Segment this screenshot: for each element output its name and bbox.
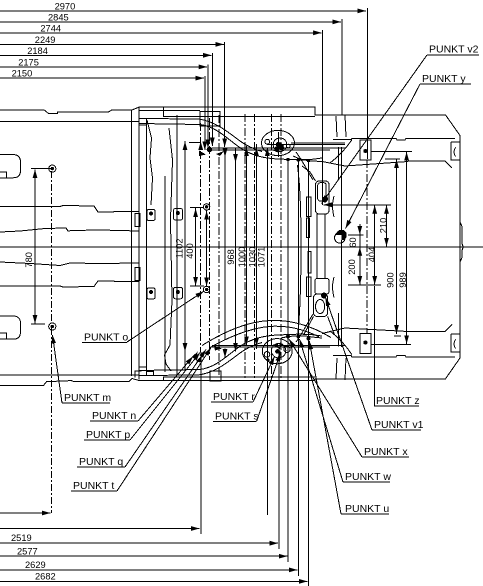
svg-text:400: 400	[185, 243, 195, 259]
svg-text:2249: 2249	[35, 35, 56, 45]
svg-text:PUNKT r: PUNKT r	[213, 391, 255, 403]
svg-text:PUNKT z: PUNKT z	[376, 395, 420, 407]
svg-text:60: 60	[348, 237, 358, 247]
svg-text:PUNKT y: PUNKT y	[422, 73, 466, 85]
svg-text:PUNKT w: PUNKT w	[345, 471, 391, 483]
svg-text:PUNKT t: PUNKT t	[73, 480, 114, 492]
svg-text:2845: 2845	[48, 13, 69, 23]
svg-text:2629: 2629	[25, 560, 46, 570]
svg-text:2577: 2577	[17, 547, 38, 557]
svg-text:2150: 2150	[12, 69, 33, 79]
svg-text:200: 200	[347, 259, 357, 275]
svg-text:PUNKT n: PUNKT n	[92, 410, 136, 422]
svg-text:PUNKT p: PUNKT p	[86, 429, 130, 441]
svg-text:PUNKT v1: PUNKT v1	[374, 419, 424, 431]
svg-text:PUNKT u: PUNKT u	[345, 503, 389, 515]
svg-text:2519: 2519	[11, 533, 32, 543]
svg-text:900: 900	[386, 272, 396, 288]
svg-text:PUNKT m: PUNKT m	[64, 392, 111, 404]
svg-text:2744: 2744	[40, 23, 61, 33]
svg-text:PUNKT x: PUNKT x	[364, 446, 408, 458]
svg-text:2970: 2970	[55, 2, 76, 12]
svg-text:1071: 1071	[256, 247, 266, 268]
svg-text:2682: 2682	[35, 572, 56, 582]
svg-text:404: 404	[367, 247, 377, 263]
svg-text:PUNKT s: PUNKT s	[215, 411, 259, 423]
svg-text:1102: 1102	[174, 239, 184, 259]
svg-text:780: 780	[24, 252, 34, 268]
svg-text:PUNKT o: PUNKT o	[84, 332, 128, 344]
svg-text:PUNKT q: PUNKT q	[79, 456, 123, 468]
svg-text:PUNKT v2: PUNKT v2	[429, 44, 479, 56]
svg-text:968: 968	[226, 249, 236, 265]
svg-text:2175: 2175	[18, 58, 39, 68]
svg-text:2184: 2184	[27, 46, 48, 56]
